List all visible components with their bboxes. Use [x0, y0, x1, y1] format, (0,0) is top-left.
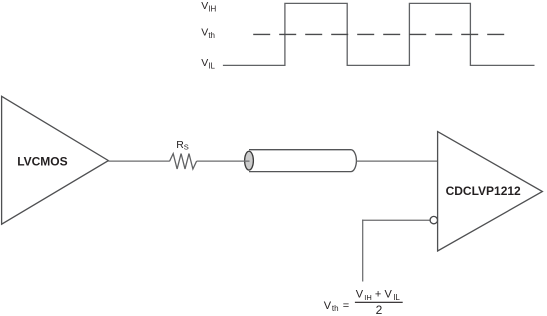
svg-text:LVCMOS: LVCMOS [17, 155, 67, 169]
svg-text:2: 2 [376, 303, 383, 316]
svg-text:=: = [343, 300, 349, 312]
svg-text:+: + [375, 289, 381, 301]
svg-text:Vth: Vth [201, 27, 215, 40]
svg-text:Vth: Vth [324, 300, 339, 313]
svg-text:VIH: VIH [201, 0, 216, 13]
svg-text:CDCLVP1212: CDCLVP1212 [446, 184, 521, 198]
svg-text:VIL: VIL [201, 57, 215, 70]
svg-text:VIL: VIL [385, 289, 401, 302]
svg-text:VIH: VIH [356, 289, 372, 302]
svg-text:RS: RS [176, 139, 189, 152]
